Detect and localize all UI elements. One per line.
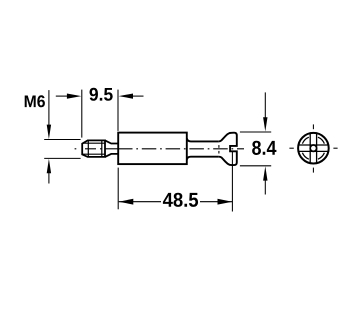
body cylinder	[118, 133, 187, 165]
end view inner circle arc top-left	[302, 137, 308, 143]
cross slot horizontal band bottom line	[298, 150, 328, 152]
9.5 left arrowhead pointing right	[67, 94, 81, 99]
centerline dot left	[75, 148, 77, 150]
8.4 arrow down	[263, 117, 267, 131]
48.5 extension line left	[117, 168, 119, 210]
cross slot horizontal band top line	[298, 144, 328, 146]
slot depth dash lower	[218, 151, 220, 154]
taper and neck left top edge	[105, 140, 118, 143]
end view centerline horizontal right dash	[333, 147, 337, 149]
label 8.4	[252, 141, 276, 155]
label 9.5	[90, 88, 113, 101]
M6 extension line top (thread top edge extended left)	[44, 139, 80, 141]
9.5 extension line right	[117, 90, 119, 131]
centerline dash in thread	[85, 148, 96, 150]
8.4 top arrow shaft	[264, 92, 266, 118]
taper and neck left bottom edge	[105, 154, 118, 157]
M6 arrow up	[47, 159, 51, 174]
48.5 dimension line right segment	[200, 201, 232, 203]
9.5 left arrow shaft	[56, 95, 69, 97]
end view inner circle arc bottom-left	[302, 153, 308, 159]
end view centerline vertical bottom dash	[312, 168, 314, 173]
9.5 right arrowhead pointing left	[119, 94, 133, 99]
M6 arrow down	[47, 125, 51, 140]
48.5 extension line right	[231, 152, 233, 212]
end view center circle	[310, 145, 316, 151]
end view inner circle arc bottom-right	[318, 153, 324, 159]
M6 extension line bottom (thread bottom edge extended left)	[44, 157, 80, 159]
8.4 bottom arrow shaft	[264, 180, 266, 195]
M6 dimension leader line vertical	[48, 90, 50, 125]
neck right top edge with fillet	[187, 138, 219, 141]
8.4 extension line top	[240, 131, 271, 133]
centerline dash at left neck	[105, 148, 118, 150]
48.5 dimension line left segment	[119, 201, 161, 203]
cross slot vertical band right line	[316, 133, 318, 163]
neck right bottom edge with fillet	[187, 157, 219, 160]
48.5 left arrowhead	[119, 199, 134, 205]
thread root line bottom	[82, 153, 105, 155]
end view outer circle	[298, 133, 329, 164]
end view centerline vertical top dash	[312, 124, 314, 129]
slot depth dash upper	[218, 145, 220, 148]
thread runout line	[101, 140, 103, 157]
9.5 right arrow shaft	[132, 95, 143, 97]
label 48.5	[163, 193, 198, 207]
M6 arrow up shaft	[48, 173, 50, 184]
thread chamfer face line	[87, 140, 89, 157]
head outline with slot notch	[219, 133, 237, 165]
label M6	[25, 95, 45, 107]
9.5 extension line left	[81, 90, 83, 138]
8.4 extension line bottom	[240, 165, 271, 167]
8.4 arrow up	[263, 166, 267, 180]
thread M6 outer profile	[82, 140, 105, 157]
centerline dot at thread runout	[100, 148, 102, 150]
end view centerline horizontal left dash	[289, 147, 293, 149]
thread root line top	[82, 142, 105, 144]
end view inner circle arc top-right	[318, 137, 324, 143]
cross slot vertical band left line	[309, 133, 311, 163]
centerline main axis	[118, 148, 244, 150]
48.5 right arrowhead	[218, 199, 233, 205]
